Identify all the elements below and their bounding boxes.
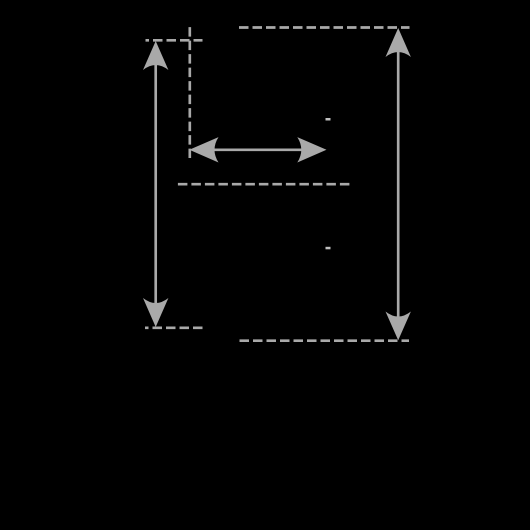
extension line: horizontal dashed (bottom of right dimension) — [240, 339, 410, 342]
dimension arrow: left vertical double-headed — [143, 41, 168, 327]
extension line: vertical dashed (top-left corner) — [188, 27, 191, 158]
label hyphen (lower) — [326, 247, 331, 250]
dimension arrow: right vertical double-headed — [386, 28, 411, 340]
label hyphen (upper) — [326, 118, 331, 121]
dimension arrow: horizontal double-headed — [189, 137, 326, 162]
extension line: horizontal dashed (top of left dimension) — [146, 39, 203, 42]
extension line: horizontal dashed (middle) — [178, 183, 350, 186]
extension line: horizontal dashed (bottom of left dimension) — [145, 326, 203, 329]
extension line: horizontal dashed (top of right dimension) — [239, 26, 410, 29]
